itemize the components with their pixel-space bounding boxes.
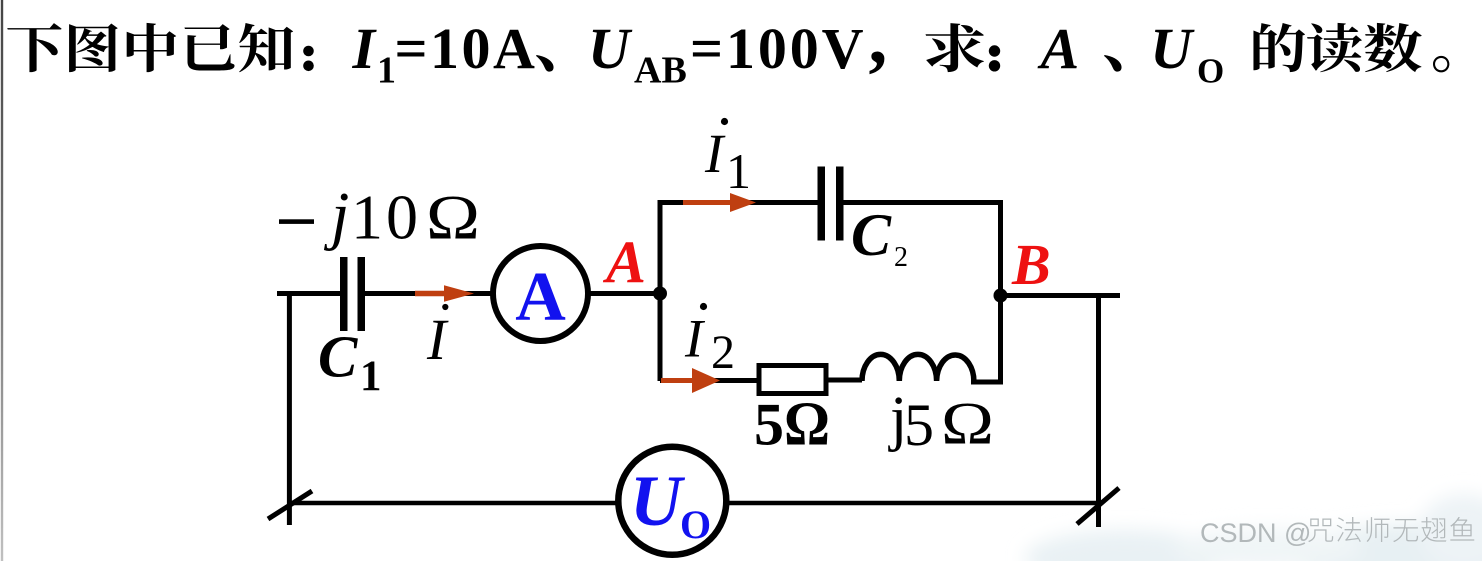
svg-text:2: 2 (711, 326, 735, 379)
svg-text:10: 10 (351, 182, 421, 253)
svg-text:O: O (1197, 52, 1224, 91)
svg-text:U: U (630, 461, 686, 541)
svg-text:5: 5 (754, 392, 784, 458)
svg-text:Ω: Ω (426, 182, 480, 253)
svg-text:A: A (602, 229, 646, 295)
svg-text:AB: AB (634, 50, 687, 92)
svg-text:=10A: =10A (395, 16, 538, 81)
svg-text:I: I (426, 307, 449, 372)
svg-text:5: 5 (904, 392, 934, 458)
svg-text:B: B (1011, 232, 1051, 297)
svg-text:1: 1 (360, 353, 382, 400)
svg-text:=100V: =100V (690, 16, 866, 81)
svg-text:2: 2 (894, 242, 908, 273)
svg-text:I: I (684, 309, 706, 369)
svg-text:A: A (515, 259, 566, 336)
svg-text:Ω: Ω (941, 391, 994, 457)
svg-text:,: , (869, 0, 888, 80)
svg-text:A: A (1038, 16, 1080, 81)
svg-text:Ω: Ω (784, 391, 830, 459)
svg-text:C: C (318, 324, 358, 390)
svg-text:I: I (704, 123, 726, 184)
svg-text:I: I (352, 16, 378, 81)
svg-text:1: 1 (377, 50, 396, 92)
svg-text:U: U (1150, 16, 1195, 81)
svg-text:1: 1 (726, 143, 751, 199)
svg-text:U: U (588, 16, 633, 81)
svg-text:O: O (680, 502, 711, 547)
svg-text:CSDN @: CSDN @ (1200, 518, 1311, 548)
svg-text:C: C (851, 202, 892, 268)
